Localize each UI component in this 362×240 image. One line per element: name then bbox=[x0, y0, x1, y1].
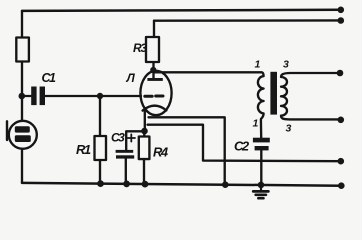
wire: second top rail (to terminal) bbox=[154, 19, 341, 22]
wire: bottom common rail bbox=[22, 183, 341, 186]
node C: junction dot (cathode / C3 / R4) bbox=[141, 128, 148, 135]
wire: C2 bottom lead bbox=[260, 150, 262, 185]
terminal dot: top rail right end bbox=[338, 7, 345, 14]
wire: top supply rail bbox=[22, 10, 341, 11]
resistor R3 bbox=[146, 37, 159, 62]
wire: left vertical, top rail to resistor bbox=[21, 11, 23, 38]
terminal dot: secondary top bbox=[337, 70, 344, 77]
node D: junction dot (anode / R3) bbox=[150, 67, 156, 73]
capacitor C1 bbox=[22, 87, 45, 106]
ground bbox=[253, 185, 268, 198]
capacitor C3 (electrolytic) bbox=[116, 150, 135, 159]
node A: junction dot (mic / C1 / resistor) bbox=[19, 93, 26, 100]
transformer secondary winding bbox=[281, 73, 341, 119]
resistor R1 bbox=[95, 136, 107, 160]
wire: resistor bottom to node A bbox=[21, 62, 23, 97]
resistor R4 bbox=[139, 137, 150, 160]
terminal dot: bottom rail right end bbox=[338, 182, 345, 189]
svg-text:3: 3 bbox=[283, 59, 289, 71]
wire: C3 bottom lead bbox=[125, 159, 127, 184]
wire: microphone to bottom rail bbox=[21, 149, 23, 183]
terminal dot: second top rail bbox=[338, 17, 345, 24]
tube cathode bbox=[143, 106, 167, 111]
wire: R4 top lead bbox=[143, 131, 145, 137]
junction dot: R1 / rail bbox=[97, 180, 104, 187]
svg-text:R3: R3 bbox=[133, 41, 147, 55]
wire: anode to transformer primary bbox=[154, 71, 262, 73]
svg-text:Л: Л bbox=[126, 71, 136, 85]
svg-text:1: 1 bbox=[255, 59, 261, 71]
wire: C1 to tube grid bbox=[45, 95, 141, 97]
wire: R1 bottom lead bbox=[99, 160, 101, 184]
node B: junction dot (grid / R1) bbox=[97, 93, 103, 99]
svg-text:R1: R1 bbox=[76, 142, 91, 157]
svg-text:1: 1 bbox=[253, 118, 259, 130]
microphone (piezo) bbox=[7, 121, 37, 149]
svg-text:C1: C1 bbox=[42, 71, 57, 85]
plus sign of C3 bbox=[128, 134, 135, 141]
tube Л envelope bbox=[140, 71, 171, 115]
junction dot: heater-ground / rail bbox=[222, 181, 229, 188]
wire: R4 bottom lead bbox=[143, 159, 145, 184]
svg-text:R4: R4 bbox=[153, 144, 169, 159]
svg-text:C3: C3 bbox=[111, 131, 125, 145]
capacitor C2 bbox=[253, 138, 270, 151]
tube grid (dashed) bbox=[145, 95, 163, 98]
wire: heater pin to filament terminal bbox=[148, 125, 342, 162]
wire: R1 top lead bbox=[99, 96, 101, 136]
transformer primary winding bbox=[258, 72, 264, 138]
wire: R3 top lead bbox=[153, 21, 155, 37]
transformer core bbox=[270, 72, 277, 115]
svg-text:3: 3 bbox=[286, 123, 292, 135]
terminal dot: filament wire bbox=[338, 158, 345, 165]
tube anode plate bbox=[147, 78, 162, 81]
wire: node A down to microphone bbox=[21, 96, 23, 121]
wire: cathode lead to node C bbox=[144, 110, 146, 131]
svg-text:C2: C2 bbox=[234, 139, 250, 154]
terminal dot: secondary bottom bbox=[338, 117, 345, 124]
junction dot: C3 / rail bbox=[123, 181, 130, 188]
wire: anode lead bbox=[152, 62, 154, 78]
resistor (input grid leak, unlabeled) bbox=[16, 38, 29, 62]
junction dot: R4 / rail bbox=[142, 181, 149, 188]
wire: C3 top lead to node C bbox=[126, 131, 144, 150]
wire: heater pin to ground rail bbox=[149, 117, 225, 185]
junction dot: C2 / ground / rail bbox=[258, 182, 265, 189]
